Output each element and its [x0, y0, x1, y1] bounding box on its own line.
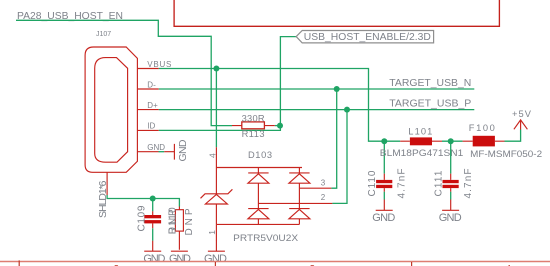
svg-text:2: 2: [321, 193, 326, 202]
wire D- / TARGET_USB_N: [159, 88, 475, 90]
wire VBUS to L101: [159, 69, 400, 142]
svg-text:4.7nF: 4.7nF: [463, 169, 474, 199]
svg-text:GND: GND: [372, 212, 395, 224]
pin SHLD1*6 of J107: [106, 172, 108, 195]
diode bottom-left: [248, 209, 269, 225]
diode bottom-right: [289, 209, 310, 225]
svg-text:DNP: DNP: [184, 208, 195, 235]
pin 3: [299, 187, 331, 189]
svg-text:1: 1: [207, 230, 217, 235]
wire C111 bottom lead: [450, 192, 452, 200]
svg-text:VBUS: VBUS: [147, 60, 171, 69]
wire SHLD to C109 / DNP resistor: [107, 195, 179, 207]
sheet frame bottom: [0, 261, 550, 263]
svg-text:GND: GND: [147, 143, 165, 152]
pin D- of J107: [137, 88, 158, 90]
junction C110 tap: [381, 138, 387, 144]
ground symbol at J107 GND (rotated): [164, 139, 189, 161]
junction C111 tap: [448, 138, 454, 144]
top bus: [216, 167, 302, 169]
wire C110 top lead: [383, 141, 385, 173]
svg-text:PRTR5V0U2X: PRTR5V0U2X: [233, 233, 299, 244]
svg-text:R113: R113: [242, 129, 265, 139]
resistor R110 DNP (vertical): [175, 207, 183, 250]
pin 4: [215, 147, 217, 167]
junction SHLD/C109: [150, 196, 156, 202]
bottom bus: [216, 223, 299, 225]
zener diode: [215, 168, 217, 225]
svg-text:TARGET_USB_P: TARGET_USB_P: [389, 99, 471, 110]
junction R113 output: [277, 123, 283, 129]
ferrite bead L101: [400, 137, 442, 145]
wire D+ / TARGET_USB_P: [159, 109, 475, 111]
wire C109 bottom lead: [152, 228, 154, 241]
junction VBUS / D103 pin4: [213, 66, 219, 72]
svg-text:GND: GND: [439, 212, 462, 224]
resistor R113: [232, 122, 275, 129]
svg-text:GND: GND: [143, 253, 165, 265]
svg-text:C111: C111: [433, 170, 444, 196]
diode top-right: [289, 168, 310, 209]
svg-text:MF-MSMF050-2: MF-MSMF050-2: [470, 149, 542, 159]
pin D+ of J107: [137, 109, 158, 111]
svg-text:4: 4: [207, 153, 217, 158]
junction D- / D103 pin3: [334, 86, 340, 92]
ground symbol at DNP resistor: [169, 251, 191, 265]
+5V supply symbol: [512, 109, 532, 130]
pin GND of J107: [137, 151, 158, 153]
svg-text:GND: GND: [169, 253, 191, 265]
svg-text:C110: C110: [367, 170, 378, 196]
svg-text:4.7nF: 4.7nF: [397, 169, 408, 199]
capacitor C109: [144, 211, 161, 228]
svg-text:330R: 330R: [242, 113, 265, 123]
svg-text:GND: GND: [177, 139, 189, 161]
svg-text:+5V: +5V: [512, 109, 532, 119]
svg-text:C109: C109: [137, 205, 148, 231]
pin VBUS of J107: [137, 68, 158, 70]
flag USB_HOST_ENABLE/2.3D: [296, 31, 433, 44]
wire D103 pin3 to TARGET_USB_N: [331, 89, 336, 188]
fuse F100: [463, 136, 505, 147]
wire GND pin to ground: [159, 151, 165, 153]
sheet area box top right: [174, 0, 499, 26]
pin 1: [215, 224, 217, 240]
junction D+ / D103 pin2: [344, 107, 350, 113]
wire C111 top lead: [450, 141, 452, 173]
wire F100 to +5V: [505, 130, 521, 142]
ground symbol at D103 pin1: [204, 240, 227, 265]
svg-text:F100: F100: [469, 123, 495, 133]
svg-text:DNP: DNP: [167, 209, 178, 234]
wire ID to flag USB_HOST_ENABLE: [159, 37, 296, 131]
net label PA28_USB_HOST_EN: [17, 11, 123, 22]
wire R113 to junction: [275, 125, 281, 127]
ground symbol at C110: [372, 200, 395, 225]
svg-text:D+: D+: [147, 101, 158, 110]
pin ID of J107: [137, 129, 158, 131]
wire C109 top lead: [152, 199, 154, 212]
ground symbol at C111: [439, 200, 462, 225]
wire PA28_USB_HOST_EN to R113: [16, 20, 232, 125]
svg-text:USB_HOST_ENABLE/2.3D: USB_HOST_ENABLE/2.3D: [304, 32, 431, 43]
svg-text:3: 3: [321, 179, 326, 188]
diode array D103: [201, 147, 333, 240]
ground symbol at C109: [143, 241, 165, 265]
svg-text:SHLD1*6: SHLD1*6: [97, 180, 109, 218]
pin 2: [258, 202, 332, 204]
svg-text:J107: J107: [96, 31, 111, 38]
svg-text:ID: ID: [147, 122, 155, 131]
svg-text:D-: D-: [147, 80, 156, 89]
wire D103 pin2 to TARGET_USB_P: [332, 110, 347, 204]
svg-text:D103: D103: [248, 150, 272, 160]
wire VBUS junction down to D103 pin 4: [215, 69, 217, 148]
svg-text:TARGET_USB_N: TARGET_USB_N: [389, 78, 471, 89]
capacitor C111: [443, 174, 459, 192]
svg-text:L101: L101: [408, 127, 432, 137]
wire C110 bottom lead: [383, 192, 385, 200]
connector J107 body: [85, 47, 137, 172]
capacitor C110: [376, 174, 392, 192]
diode top-left: [248, 168, 269, 209]
wire L101 to F100: [442, 140, 463, 142]
